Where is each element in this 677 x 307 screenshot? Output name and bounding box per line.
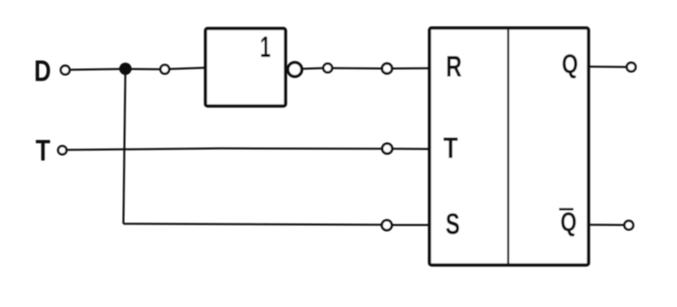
junction node: [119, 63, 131, 75]
connector circle on inverter input: [160, 65, 169, 74]
connector circle after bubble: [323, 64, 332, 73]
svg-text:T: T: [443, 130, 458, 164]
wire junction to connector: [131, 68, 160, 70]
svg-text:Q: Q: [560, 207, 576, 237]
wire Q-bar output: [589, 224, 625, 226]
terminal T: [58, 146, 66, 154]
wire Q output: [589, 66, 627, 68]
wire connector to S input: [392, 224, 429, 226]
wire bottom horizontal to connector: [123, 223, 381, 226]
wire connector to R input: [392, 67, 429, 69]
flip-flop divider line: [507, 28, 509, 265]
wire connector to inverter input: [170, 68, 205, 69]
connector circle on T input: [382, 144, 392, 154]
wire bubble to connector: [303, 67, 323, 70]
connector circle on R input: [382, 64, 392, 74]
svg-text:D: D: [34, 54, 51, 87]
overbar of Q-bar: [559, 208, 574, 211]
svg-text:1: 1: [260, 31, 271, 64]
wire connector to connector on R line: [333, 67, 382, 69]
svg-text:S: S: [445, 206, 459, 240]
wire junction down (vertical): [123, 69, 125, 224]
svg-text:R: R: [446, 49, 462, 83]
connector circle on S input: [382, 220, 392, 230]
svg-text:T: T: [36, 133, 51, 167]
wire connector to T input: [392, 148, 429, 150]
svg-text:Q: Q: [562, 50, 578, 80]
wire D terminal to junction: [70, 68, 120, 71]
inverter U1 box: [206, 29, 286, 107]
terminal Q-bar: [624, 221, 633, 230]
inverter output bubble: [288, 63, 302, 77]
terminal D: [61, 66, 70, 75]
wire T terminal to connector: [67, 148, 382, 150]
terminal Q: [627, 63, 636, 72]
flip-flop U2 box: [430, 28, 589, 265]
